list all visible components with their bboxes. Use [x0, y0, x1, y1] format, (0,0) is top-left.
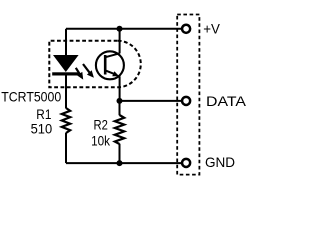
LED D1 — [52, 55, 79, 76]
wire top rail (+V) — [66, 28, 181, 30]
node junction bottom rail — [117, 160, 123, 166]
svg-text:+V: +V — [203, 21, 220, 36]
sensor package dashed outline TCRT5000 — [49, 41, 140, 88]
svg-text:TCRT5000: TCRT5000 — [1, 89, 61, 104]
wire R2 to GND rail — [119, 144, 121, 163]
wire collector — [119, 29, 121, 54]
wire LED anode — [65, 29, 67, 56]
svg-text:R1: R1 — [36, 107, 51, 122]
wire DATA node to R2 — [119, 101, 121, 115]
node junction top rail — [117, 26, 123, 32]
wire DATA rail — [120, 100, 182, 102]
LED emission arrow 1 — [76, 68, 83, 80]
svg-text:GND: GND — [205, 155, 235, 170]
terminal GND — [182, 159, 190, 167]
node junction DATA — [117, 98, 123, 104]
LED emission arrow 2 — [83, 64, 94, 78]
resistor R1 — [62, 108, 70, 133]
wire LED cathode to R1 — [65, 76, 67, 109]
terminal DATA — [182, 97, 190, 105]
svg-text:R2: R2 — [94, 118, 108, 133]
svg-text:510: 510 — [31, 121, 53, 136]
terminal +V — [182, 25, 190, 33]
resistor R2 — [115, 115, 124, 144]
phototransistor Q1 — [96, 51, 124, 79]
wire R1 to GND rail — [65, 133, 67, 163]
wire emitter to DATA node — [119, 76, 121, 101]
svg-text:DATA: DATA — [206, 94, 247, 109]
wire bottom rail (GND) — [66, 162, 181, 164]
svg-text:10k: 10k — [91, 133, 110, 148]
connector dashed box — [177, 15, 199, 175]
